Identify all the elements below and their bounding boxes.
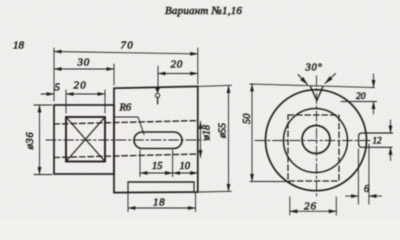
bottom flat seam line: [128, 181, 194, 183]
dimension 70 line: [54, 52, 198, 54]
dimension Ø36 extension top: [34, 104, 52, 106]
dimension 20 (slot to face) line: [158, 73, 198, 75]
svg-text:18: 18: [153, 197, 165, 209]
svg-text:15: 15: [152, 161, 163, 172]
dimension 18 bottom line: [128, 207, 196, 209]
svg-text:ø55: ø55: [218, 123, 229, 139]
slot centerline mark stem: [157, 98, 159, 104]
svg-text:20: 20: [74, 79, 87, 91]
dimension Ø36 line: [39, 105, 41, 175]
svg-text:20: 20: [356, 92, 366, 102]
svg-text:20: 20: [171, 58, 184, 70]
slot centerline mark loop: [156, 93, 160, 97]
dimension Ø55 line: [228, 85, 230, 191]
notch depth dim arrow bottom: [373, 102, 375, 115]
middle circle: [284, 109, 348, 173]
svg-text:5: 5: [55, 82, 61, 94]
notch V right side: [317, 87, 323, 101]
dimension Ø18 line: [200, 122, 202, 158]
dimension Ø55 extension top: [199, 85, 232, 86]
svg-text:50: 50: [242, 113, 253, 124]
dimension 6 arrow left: [346, 195, 359, 197]
horizontal centerline: [255, 140, 372, 142]
slot (keyway stadium shape): [134, 132, 182, 149]
dimension Ø55 extension bottom: [199, 190, 232, 193]
small step rectangle (left cylinder): [54, 105, 114, 174]
dimension Ø36 extension bottom: [34, 174, 52, 176]
dimension 20 (slot to face) extension: [157, 66, 159, 88]
hidden square (dashed): [288, 115, 339, 181]
slot dim extension middle: [172, 150, 174, 177]
dimension 6 extension left: [357, 149, 359, 204]
dimension 5 outside arrow: [41, 93, 54, 95]
outer circle Ø50: [266, 90, 367, 191]
svg-text:R6: R6: [119, 103, 132, 114]
dimension 12 arrow bottom: [390, 147, 392, 160]
svg-text:30: 30: [77, 57, 91, 69]
dimension 26 extension right: [335, 197, 337, 215]
dimension 70 extension left: [53, 48, 55, 101]
bottom flat left edge: [127, 182, 129, 192]
dimension 10 line: [173, 172, 198, 174]
horizontal centerline of shaft: [46, 139, 206, 141]
dimension 30 extension right: [113, 64, 115, 85]
dimension 15 line: [140, 172, 173, 174]
dimension 12 arrow top: [390, 120, 392, 133]
30deg leader arrow left: [298, 75, 308, 85]
big step rectangle (large cylinder): [114, 86, 198, 192]
square cross diagonal 2: [66, 117, 105, 162]
dimension 26 line: [290, 210, 337, 212]
dimension 6 extension right: [368, 144, 370, 204]
square left extension: [65, 90, 67, 113]
svg-text:70: 70: [121, 40, 134, 52]
R6 leader line: [138, 117, 144, 135]
svg-text:26: 26: [304, 200, 317, 212]
svg-text:10: 10: [180, 161, 191, 172]
notch depth dim arrow top: [373, 74, 375, 88]
dimension 26 extension left: [289, 197, 291, 215]
slot centerline mark arrowhead: [155, 88, 160, 94]
svg-text:18: 18: [13, 40, 25, 52]
dimension 18 bottom extension right: [195, 192, 197, 211]
top tangent extension line: [250, 84, 375, 88]
dimension 18 bottom extension left: [127, 192, 129, 211]
square feature box with cross: [66, 117, 105, 162]
dimension 30 line: [54, 68, 114, 70]
notch depth extension line: [341, 101, 377, 103]
hidden hole line bottom (dashed): [54, 154, 198, 158]
inner hole circle: [302, 126, 330, 154]
30deg leader arrow right: [325, 74, 336, 84]
square right extension: [104, 90, 106, 113]
bottom flat right edge: [193, 182, 195, 192]
svg-text:12: 12: [373, 136, 383, 146]
svg-text:6: 6: [364, 184, 369, 195]
svg-text:ø18: ø18: [202, 125, 213, 141]
vertical centerline: [316, 76, 318, 197]
dimension 50 line: [251, 84, 253, 181]
notch V left side: [311, 87, 317, 101]
svg-text:30°: 30°: [305, 63, 323, 74]
dimension 70 extension right: [197, 48, 199, 84]
dimension 50 bottom extension: [250, 181, 290, 183]
square cross diagonal 1: [66, 117, 105, 162]
slot projection bracket: [359, 133, 393, 147]
svg-text:ø36: ø36: [25, 132, 36, 151]
hidden hole line top (dashed): [54, 121, 198, 124]
dimension 20 (square) line: [66, 93, 105, 95]
slot dim extension left: [139, 150, 141, 177]
dimension 6 arrow right: [369, 195, 382, 197]
svg-text:Вариант №1,16: Вариант №1,16: [165, 5, 242, 17]
R6 leader shoulder: [114, 116, 138, 118]
